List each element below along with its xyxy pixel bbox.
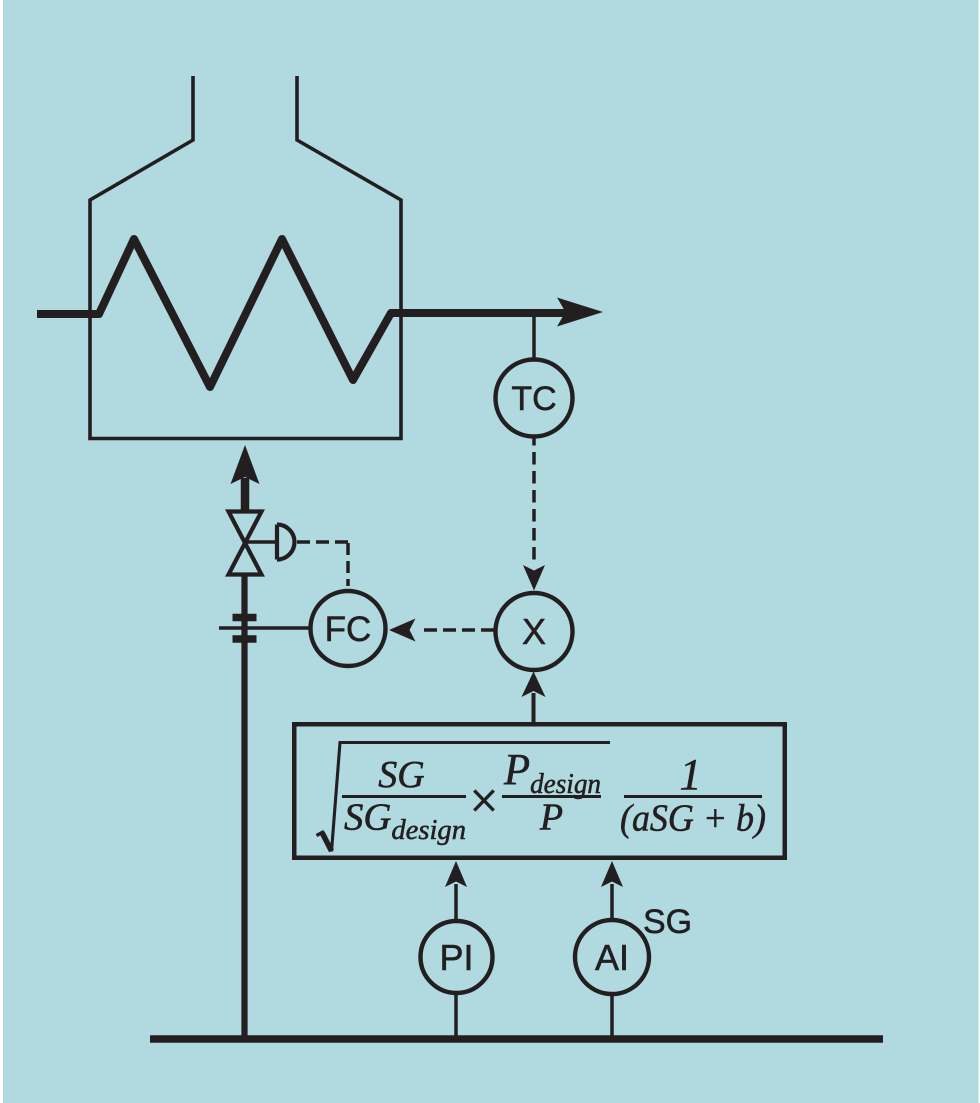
- svg-text:PI: PI: [439, 937, 473, 978]
- svg-text:AI: AI: [595, 937, 629, 978]
- svg-text:FC: FC: [325, 610, 372, 649]
- svg-text:SG: SG: [643, 903, 692, 941]
- svg-text:1: 1: [680, 750, 702, 799]
- svg-text:P: P: [539, 797, 563, 839]
- svg-text:TC: TC: [511, 380, 556, 418]
- svg-text:SG: SG: [378, 754, 424, 796]
- svg-text:(aSG + b): (aSG + b): [620, 798, 766, 840]
- svg-text:X: X: [522, 611, 546, 652]
